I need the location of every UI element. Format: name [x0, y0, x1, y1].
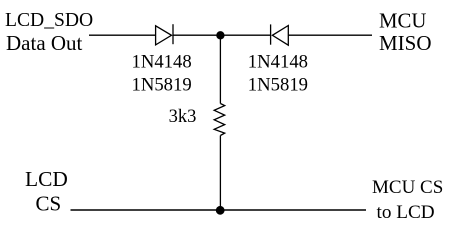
svg-text:Data Out: Data Out — [6, 31, 83, 55]
svg-text:1N5819: 1N5819 — [248, 75, 308, 96]
svg-text:CS: CS — [36, 192, 62, 216]
svg-text:1N5819: 1N5819 — [132, 75, 192, 96]
svg-text:MCU CS: MCU CS — [372, 177, 443, 198]
svg-text:MCU: MCU — [379, 10, 426, 33]
svg-text:1N4148: 1N4148 — [248, 52, 308, 73]
svg-text:3k3: 3k3 — [169, 107, 197, 127]
svg-text:to LCD: to LCD — [377, 202, 435, 223]
svg-text:MISO: MISO — [379, 31, 432, 55]
svg-text:1N4148: 1N4148 — [132, 52, 192, 73]
svg-text:LCD: LCD — [25, 167, 68, 191]
svg-text:LCD_SDO: LCD_SDO — [5, 10, 93, 31]
